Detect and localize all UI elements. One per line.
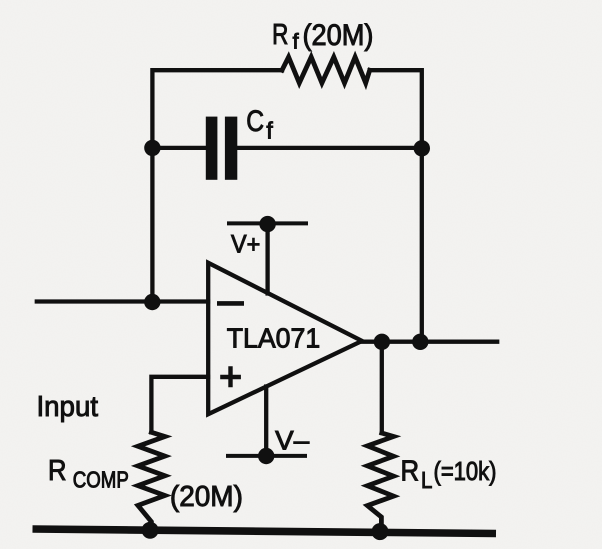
node: V- junction	[258, 448, 274, 464]
svg-text:R: R	[401, 456, 420, 488]
svg-text:L: L	[421, 467, 432, 493]
node: Cf / feedback-left junction	[144, 140, 160, 156]
node: RL ground junction	[372, 523, 389, 540]
node: Rcomp ground junction	[142, 522, 159, 539]
op-amp non-inverting input marker (plus)	[220, 366, 241, 387]
V+ supply bar	[229, 221, 306, 225]
wire: Rf right lead, corner down to output node	[370, 70, 422, 342]
svg-text:(20M): (20M)	[170, 481, 243, 513]
svg-text:f: f	[266, 118, 273, 144]
svg-text:TLA071: TLA071	[227, 323, 321, 354]
capacitor Cf right plate	[225, 117, 237, 180]
node: output junction at apex	[374, 334, 390, 350]
wire: left feedback vertical + top horizontal to Rf	[152, 70, 282, 303]
svg-text:C: C	[246, 105, 264, 138]
svg-text:(=10k): (=10k)	[434, 456, 497, 486]
V- supply bar	[228, 454, 305, 458]
ground rail	[33, 529, 497, 534]
op-amp inverting input marker (minus)	[217, 301, 244, 306]
capacitor Cf left plate	[206, 117, 218, 180]
wire: Cf right lead	[237, 146, 422, 150]
svg-text:f: f	[293, 30, 299, 54]
svg-text:V+: V+	[231, 231, 260, 259]
wire: Cf left lead	[152, 146, 206, 150]
op-amp U1 triangle	[208, 263, 362, 414]
wire: non-inverting input to Rcomp	[151, 377, 208, 433]
node: Cf / feedback-right junction	[414, 140, 430, 156]
resistor RL	[367, 433, 393, 530]
resistor Rf	[282, 57, 370, 83]
svg-text:Input: Input	[37, 391, 99, 423]
svg-text:(20M): (20M)	[303, 19, 374, 52]
node: output / feedback junction	[412, 334, 428, 350]
node: input / feedback junction	[144, 294, 160, 310]
node: V+ junction	[259, 216, 275, 232]
wire: V+ stub into op-amp	[265, 224, 269, 294]
resistor Rcomp	[138, 432, 165, 528]
wire: output line	[361, 340, 497, 344]
wire: output node down to RL	[380, 342, 384, 433]
wire: input line to inverting input	[37, 299, 208, 303]
wire: V- stub from op-amp	[264, 387, 268, 456]
svg-text:R: R	[48, 455, 67, 487]
svg-text:COMP: COMP	[73, 466, 129, 492]
svg-text:V–: V–	[275, 426, 309, 456]
svg-text:R: R	[272, 19, 288, 51]
